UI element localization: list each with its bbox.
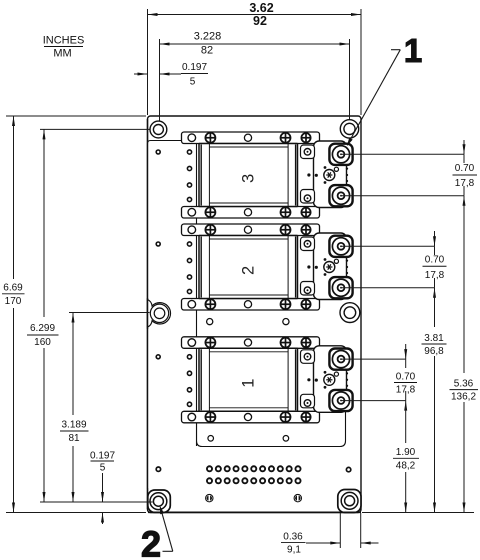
module 2 rail screws xyxy=(188,226,196,234)
module 2 aux blocks xyxy=(301,237,315,251)
svg-text:5.36: 5.36 xyxy=(454,379,474,390)
plate holes between modules xyxy=(207,319,213,325)
dimension 3.189/81 mid-hole to bottom hole xyxy=(72,313,74,416)
module 3 bottom rail xyxy=(182,207,320,219)
svg-text:5: 5 xyxy=(100,463,106,474)
module 1 center torx screw xyxy=(324,374,335,385)
svg-text:0.36: 0.36 xyxy=(283,532,303,543)
svg-text:2: 2 xyxy=(141,524,161,560)
module 3 rail screws xyxy=(188,208,196,216)
module 3 aux blocks xyxy=(301,145,315,159)
svg-text:0.70: 0.70 xyxy=(455,163,475,174)
left bracket strip xyxy=(148,141,197,490)
module 2 bracket rivets xyxy=(187,242,191,246)
svg-text:3: 3 xyxy=(240,174,258,183)
plate holes below module 1 xyxy=(208,436,214,442)
svg-text:92: 92 xyxy=(253,14,267,28)
module 2 rail screws xyxy=(188,300,196,308)
svg-text:5: 5 xyxy=(190,77,196,88)
terminal leader lines xyxy=(341,153,464,155)
module 1 small indicator dots xyxy=(307,378,310,381)
svg-text:17,8: 17,8 xyxy=(425,270,445,281)
bottom slotted screws xyxy=(206,494,213,501)
module 3 relay body xyxy=(199,144,298,207)
dimension 6.69/170 overall height xyxy=(13,116,15,279)
svg-text:160: 160 xyxy=(34,337,51,348)
svg-text:48,2: 48,2 xyxy=(396,461,416,472)
module 1 top rail xyxy=(182,337,320,349)
dimension 3.228/82 hole spacing xyxy=(160,43,350,45)
svg-text:0.197: 0.197 xyxy=(182,62,207,73)
left extension lines xyxy=(6,115,146,117)
dimension 3.62/92 overall width xyxy=(148,14,362,16)
module 1 relay body xyxy=(199,348,298,411)
side dots near vents xyxy=(156,467,160,471)
svg-text:0.197: 0.197 xyxy=(90,451,115,462)
svg-text:170: 170 xyxy=(5,296,22,307)
module 2 bottom rail xyxy=(182,299,320,311)
module 3 bracket rivets xyxy=(187,150,191,154)
svg-text:MM: MM xyxy=(53,48,71,60)
mid-right mounting hole xyxy=(340,303,360,323)
base plate / heatsink outline behind modules xyxy=(197,410,346,447)
module 2 terminal block body xyxy=(314,233,347,300)
dimension 0.70/17,8 module 2 and 3.81/96,8 xyxy=(434,231,436,246)
module 3 rail screws xyxy=(188,134,196,142)
svg-text:81: 81 xyxy=(68,433,80,444)
module 3 center torx screw xyxy=(324,170,335,181)
module 1 aux blocks xyxy=(301,350,315,364)
svg-text:1: 1 xyxy=(404,32,422,69)
svg-text:3.228: 3.228 xyxy=(194,31,222,43)
svg-text:6.69: 6.69 xyxy=(3,283,23,294)
top extension lines xyxy=(147,9,149,115)
svg-text:1.90: 1.90 xyxy=(396,447,416,458)
svg-text:0.70: 0.70 xyxy=(396,372,416,383)
module 1 rail screws xyxy=(188,339,196,347)
mid-left mounting hole with boss arc xyxy=(148,300,171,328)
module 1 rail screws xyxy=(188,413,196,421)
svg-text:3.189: 3.189 xyxy=(61,420,86,431)
module 3 terminal stud pads xyxy=(329,144,352,165)
bottom-right mounting boss xyxy=(338,490,361,513)
module 2 top rail xyxy=(182,224,320,236)
module 1 terminal stud pads xyxy=(329,349,352,370)
top-left mounting hole xyxy=(150,121,167,138)
svg-text:3.81: 3.81 xyxy=(424,333,444,344)
vent hole grid xyxy=(207,466,212,471)
module 3 top rail xyxy=(182,132,320,144)
svg-text:INCHES: INCHES xyxy=(43,35,85,47)
dimension 0.36/9,1 terminal to edge xyxy=(339,513,341,548)
module 1 bracket rivets xyxy=(187,355,191,359)
svg-text:9,1: 9,1 xyxy=(287,545,301,556)
right extension line bottom edge xyxy=(362,512,474,514)
module 2 terminal stud pads xyxy=(329,236,352,257)
svg-text:2: 2 xyxy=(240,266,258,275)
svg-text:82: 82 xyxy=(201,45,213,57)
bottom-left mounting boss xyxy=(148,490,171,512)
svg-text:17,8: 17,8 xyxy=(396,385,416,396)
mounting plate outline xyxy=(148,116,362,513)
module 3 terminal block body xyxy=(314,141,347,208)
module 2 relay body xyxy=(199,236,298,299)
dimension 0.197/5 top left offset xyxy=(134,73,148,75)
dimension 0.70/17,8 module 1 and 1.90/48,2 xyxy=(405,344,407,359)
svg-text:3.62: 3.62 xyxy=(249,1,273,15)
dimension 6.299/160 hole-to-hole height xyxy=(43,129,45,317)
module 2 small indicator dots xyxy=(307,265,310,268)
svg-text:0.70: 0.70 xyxy=(425,255,445,266)
dimension 0.70/17,8 module 3 and 5.36/136,2 xyxy=(463,140,465,154)
module 2 center torx screw xyxy=(324,262,335,273)
module 1 terminal block body xyxy=(314,346,347,413)
svg-text:1: 1 xyxy=(240,379,258,388)
module 1 bottom rail xyxy=(182,411,320,423)
svg-text:17,8: 17,8 xyxy=(455,178,475,189)
svg-text:6.299: 6.299 xyxy=(30,323,55,334)
top-right mounting hole xyxy=(340,120,358,138)
svg-text:96,8: 96,8 xyxy=(424,346,444,357)
module 3 small indicator dots xyxy=(307,173,310,176)
svg-text:136,2: 136,2 xyxy=(451,391,476,402)
